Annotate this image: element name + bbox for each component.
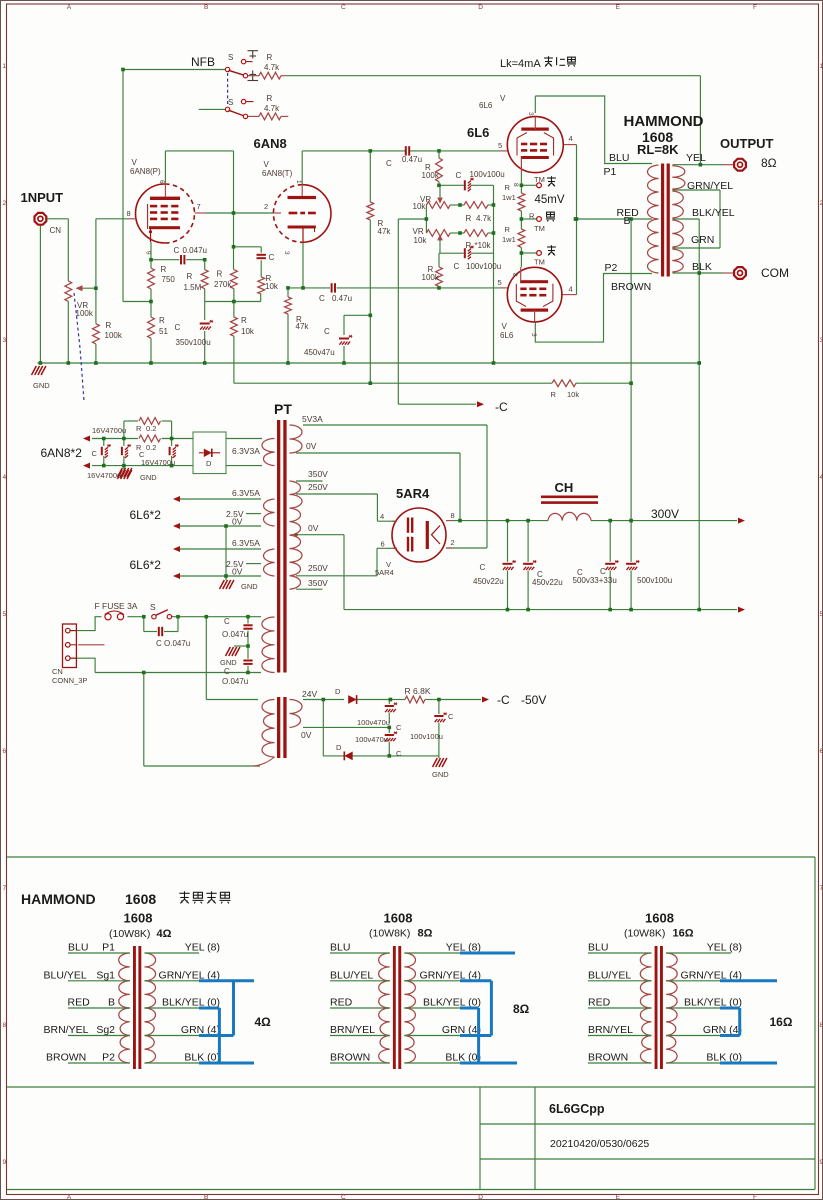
svg-text:S: S <box>228 98 233 107</box>
svg-text:300V: 300V <box>651 507 679 521</box>
svg-text:100v100u: 100v100u <box>470 170 505 179</box>
svg-text:RED: RED <box>330 997 353 1009</box>
svg-text:S: S <box>228 53 233 62</box>
svg-text:C: C <box>341 4 346 11</box>
svg-text:R: R <box>136 424 142 433</box>
svg-text:10k: 10k <box>265 282 279 291</box>
svg-text:R: R <box>466 241 472 250</box>
svg-text:BROWN: BROWN <box>330 1052 370 1064</box>
svg-text:C: C <box>324 327 330 336</box>
svg-text:R: R <box>466 214 472 223</box>
svg-text:RED: RED <box>588 997 611 1009</box>
svg-text:F: F <box>753 1194 757 1200</box>
svg-text:1608: 1608 <box>645 911 674 926</box>
svg-text:8: 8 <box>512 183 519 187</box>
svg-text:TM: TM <box>534 224 545 233</box>
svg-text:O.047u: O.047u <box>222 677 248 686</box>
svg-text:5: 5 <box>3 611 7 618</box>
svg-text:6: 6 <box>381 540 385 549</box>
svg-text:100v100u: 100v100u <box>466 262 501 271</box>
svg-text:7: 7 <box>3 885 7 892</box>
svg-text:100v470u: 100v470u <box>357 718 390 727</box>
svg-text:4: 4 <box>3 474 7 481</box>
svg-text:2: 2 <box>820 200 823 207</box>
svg-text:S: S <box>150 602 156 612</box>
svg-text:3: 3 <box>527 112 534 116</box>
svg-text:5: 5 <box>498 141 502 150</box>
svg-text:OUTPUT: OUTPUT <box>720 136 774 151</box>
svg-text:BLU: BLU <box>609 152 629 164</box>
svg-text:HAMMOND: HAMMOND <box>21 891 96 907</box>
svg-text:4: 4 <box>569 285 573 294</box>
svg-text:6: 6 <box>3 748 7 755</box>
svg-text:0V: 0V <box>232 517 243 527</box>
svg-text:1: 1 <box>3 63 7 70</box>
svg-text:VR: VR <box>413 227 424 236</box>
svg-text:51: 51 <box>159 327 168 336</box>
svg-text:6L6: 6L6 <box>479 101 493 110</box>
svg-text:YEL (8): YEL (8) <box>185 942 220 954</box>
svg-text:C: C <box>480 563 486 572</box>
svg-text:CN: CN <box>50 226 62 235</box>
svg-text:20210420/0530/0625: 20210420/0530/0625 <box>550 1138 649 1150</box>
svg-text:C: C <box>269 253 275 262</box>
svg-text:YEL (8): YEL (8) <box>707 942 742 954</box>
svg-text:R: R <box>505 225 511 234</box>
svg-text:V: V <box>502 322 508 331</box>
svg-text:0.47u: 0.47u <box>402 155 422 164</box>
svg-text:100v470u: 100v470u <box>355 735 388 744</box>
svg-text:R: R <box>529 212 535 221</box>
svg-text:1NPUT: 1NPUT <box>21 190 64 205</box>
svg-text:A: A <box>67 1194 72 1200</box>
svg-text:1: 1 <box>295 180 302 184</box>
svg-text:CN: CN <box>52 667 63 676</box>
svg-text:-50V: -50V <box>521 693 546 707</box>
svg-text:100k: 100k <box>76 309 94 318</box>
svg-text:1w1: 1w1 <box>502 193 516 202</box>
svg-text:YEL: YEL <box>686 152 706 164</box>
svg-text:270k: 270k <box>214 280 232 289</box>
svg-text:16Ω: 16Ω <box>673 928 694 940</box>
svg-text:4: 4 <box>820 474 823 481</box>
svg-text:47k: 47k <box>296 322 310 331</box>
svg-text:6L6: 6L6 <box>467 125 489 140</box>
svg-text:(10W8K): (10W8K) <box>369 928 410 940</box>
svg-text:R: R <box>551 390 557 399</box>
svg-text:6L6GCpp: 6L6GCpp <box>549 1102 605 1116</box>
svg-text:4.7k: 4.7k <box>476 214 492 223</box>
svg-text:(10W8K): (10W8K) <box>624 928 665 940</box>
svg-text:100k: 100k <box>105 331 123 340</box>
svg-text:TM: TM <box>534 258 545 267</box>
svg-text:0V: 0V <box>232 567 243 577</box>
svg-text:R: R <box>161 265 167 274</box>
svg-text:24V: 24V <box>302 689 317 699</box>
svg-text:BLU/YEL: BLU/YEL <box>44 969 87 981</box>
svg-text:1608: 1608 <box>124 911 153 926</box>
svg-text:5AR4: 5AR4 <box>396 486 430 501</box>
svg-text:0V: 0V <box>301 730 312 740</box>
svg-text:6: 6 <box>158 180 165 184</box>
svg-text:P2: P2 <box>102 1052 115 1064</box>
svg-text:BLU: BLU <box>330 942 350 954</box>
svg-text:6L6*2: 6L6*2 <box>130 508 162 522</box>
svg-text:B: B <box>204 1194 208 1200</box>
svg-text:R: R <box>106 321 112 330</box>
svg-text:BLK/YEL: BLK/YEL <box>692 207 735 219</box>
svg-text:B: B <box>108 997 115 1009</box>
svg-text:P1: P1 <box>102 942 115 954</box>
svg-text:6AN8: 6AN8 <box>254 136 287 151</box>
svg-text:500v100u: 500v100u <box>637 576 672 585</box>
svg-text:1.5M: 1.5M <box>184 283 202 292</box>
svg-text:6AN8(P): 6AN8(P) <box>130 167 161 176</box>
svg-text:Sg2: Sg2 <box>96 1024 115 1036</box>
svg-text:R: R <box>241 316 247 325</box>
svg-text:4: 4 <box>569 134 573 143</box>
svg-text:1608: 1608 <box>125 891 156 907</box>
svg-text:(10W8K): (10W8K) <box>109 928 150 940</box>
svg-text:4: 4 <box>380 512 384 521</box>
svg-text:BROWN: BROWN <box>46 1052 86 1064</box>
svg-text:3: 3 <box>820 337 823 344</box>
svg-text:0.2: 0.2 <box>146 424 156 433</box>
svg-text:P2: P2 <box>605 262 618 274</box>
svg-text:C: C <box>600 567 606 576</box>
svg-text:A: A <box>67 4 72 11</box>
svg-text:3: 3 <box>283 251 290 255</box>
svg-text:GND: GND <box>140 473 157 482</box>
svg-text:750: 750 <box>162 275 176 284</box>
svg-text:BROWN: BROWN <box>588 1052 628 1064</box>
svg-text:C: C <box>456 171 462 180</box>
svg-text:1608: 1608 <box>384 911 413 926</box>
svg-text:6L6: 6L6 <box>500 331 514 340</box>
svg-text:6.3V3A: 6.3V3A <box>232 446 260 456</box>
svg-text:1w1: 1w1 <box>502 235 516 244</box>
svg-text:6L6*2: 6L6*2 <box>130 558 162 572</box>
svg-text:7: 7 <box>197 202 201 211</box>
svg-text:BRN/YEL: BRN/YEL <box>588 1024 633 1036</box>
svg-text:D: D <box>335 687 341 696</box>
svg-text:5AR4: 5AR4 <box>375 568 394 577</box>
svg-text:250V: 250V <box>308 482 328 492</box>
svg-text:8: 8 <box>451 511 455 520</box>
svg-text:GND: GND <box>33 381 50 390</box>
svg-text:10k: 10k <box>567 390 579 399</box>
svg-text:8Ω: 8Ω <box>761 156 777 170</box>
svg-text:4Ω: 4Ω <box>255 1015 272 1029</box>
svg-text:R: R <box>187 272 193 281</box>
svg-text:10k: 10k <box>241 327 255 336</box>
svg-text:450v22u: 450v22u <box>532 578 563 587</box>
svg-text:350v100u: 350v100u <box>176 338 211 347</box>
svg-text:-C: -C <box>497 693 510 707</box>
svg-text:C: C <box>175 323 181 332</box>
svg-text:6AN8(T): 6AN8(T) <box>262 169 293 178</box>
svg-text:GND: GND <box>432 770 449 779</box>
svg-text:B: B <box>624 215 631 227</box>
svg-text:C: C <box>396 749 402 758</box>
svg-text:500v33+33u: 500v33+33u <box>573 576 617 585</box>
svg-text:GND: GND <box>241 582 258 591</box>
svg-text:C: C <box>386 159 392 168</box>
svg-text:-C: -C <box>495 400 508 414</box>
svg-text:0.047u: 0.047u <box>183 246 207 255</box>
svg-text:F FUSE 3A: F FUSE 3A <box>95 601 138 611</box>
svg-text:RL=8K: RL=8K <box>637 142 679 157</box>
svg-text:9: 9 <box>145 251 152 255</box>
svg-text:8: 8 <box>127 209 131 218</box>
svg-text:16Ω: 16Ω <box>770 1015 793 1029</box>
svg-text:45mV: 45mV <box>535 194 565 206</box>
svg-text:0.47u: 0.47u <box>332 294 352 303</box>
svg-text:0.2: 0.2 <box>146 443 156 452</box>
svg-text:D: D <box>478 1194 483 1200</box>
svg-text:BLU: BLU <box>68 942 88 954</box>
svg-text:C: C <box>448 712 454 721</box>
svg-text:Sg1: Sg1 <box>96 969 115 981</box>
svg-text:BROWN: BROWN <box>611 281 651 293</box>
svg-text:10k: 10k <box>414 236 428 245</box>
svg-text:2: 2 <box>3 200 7 207</box>
svg-text:HAMMOND: HAMMOND <box>624 113 704 130</box>
svg-text:V: V <box>132 158 138 167</box>
svg-text:16V4700u: 16V4700u <box>92 426 126 435</box>
svg-text:GRN: GRN <box>691 234 714 246</box>
svg-text:D: D <box>336 743 342 752</box>
svg-text:D: D <box>206 459 212 468</box>
svg-text:B: B <box>204 4 208 11</box>
svg-text:C: C <box>174 246 180 255</box>
svg-text:R: R <box>267 94 273 103</box>
svg-text:0V: 0V <box>306 441 317 451</box>
svg-text:3: 3 <box>3 337 7 344</box>
svg-text:C: C <box>224 667 230 676</box>
svg-text:BLU: BLU <box>588 942 608 954</box>
svg-text:4Ω: 4Ω <box>157 928 172 940</box>
svg-text:16V4700u: 16V4700u <box>141 458 175 467</box>
svg-text:C: C <box>139 450 145 459</box>
svg-text:5: 5 <box>498 278 502 287</box>
svg-text:C: C <box>454 262 460 271</box>
svg-text:9: 9 <box>3 1159 7 1166</box>
svg-text:7: 7 <box>820 885 823 892</box>
svg-text:350V: 350V <box>308 578 328 588</box>
svg-text:10k: 10k <box>413 202 427 211</box>
svg-text:P1: P1 <box>604 166 617 178</box>
svg-text:C: C <box>319 294 325 303</box>
svg-text:E: E <box>616 1194 621 1200</box>
svg-text:R: R <box>217 270 223 279</box>
svg-text:5: 5 <box>820 611 823 618</box>
svg-text:C: C <box>396 723 402 732</box>
svg-text:E: E <box>616 4 621 11</box>
svg-text:C: C <box>92 449 98 458</box>
svg-text:R 6.8K: R 6.8K <box>405 686 431 696</box>
svg-text:F: F <box>753 4 757 11</box>
svg-text:CH: CH <box>555 480 574 495</box>
svg-text:R: R <box>267 53 273 62</box>
svg-text:4.7k: 4.7k <box>264 63 280 72</box>
svg-text:*10k: *10k <box>475 241 492 250</box>
svg-text:R: R <box>159 316 165 325</box>
svg-text:COM: COM <box>761 266 789 280</box>
svg-text:16V4700u: 16V4700u <box>87 471 121 480</box>
svg-text:8: 8 <box>511 273 518 277</box>
svg-text:100v100u: 100v100u <box>410 732 443 741</box>
svg-text:BLU/YEL: BLU/YEL <box>330 969 373 981</box>
svg-text:47k: 47k <box>378 227 392 236</box>
svg-text:450v47u: 450v47u <box>304 348 335 357</box>
svg-text:0V: 0V <box>308 523 319 533</box>
svg-text:6AN8*2: 6AN8*2 <box>41 446 83 460</box>
svg-text:2: 2 <box>264 202 268 211</box>
svg-text:450v22u: 450v22u <box>473 577 504 586</box>
svg-text:100k: 100k <box>422 171 440 180</box>
svg-text:TM: TM <box>534 175 545 184</box>
svg-text:RED: RED <box>68 997 91 1009</box>
svg-text:V: V <box>264 160 270 169</box>
svg-text:C O.047u: C O.047u <box>156 639 190 648</box>
svg-text:NFB: NFB <box>191 55 215 69</box>
svg-text:8Ω: 8Ω <box>418 928 433 940</box>
svg-text:8Ω: 8Ω <box>513 1002 530 1016</box>
svg-text:6.3V5A: 6.3V5A <box>232 538 260 548</box>
svg-text:6.3V5A: 6.3V5A <box>232 488 260 498</box>
svg-text:GRN/YEL: GRN/YEL <box>687 180 733 192</box>
svg-text:O.047u: O.047u <box>222 630 248 639</box>
svg-text:V: V <box>500 94 506 103</box>
svg-text:PT: PT <box>274 401 292 417</box>
svg-text:250V: 250V <box>308 563 328 573</box>
svg-text:BLU/YEL: BLU/YEL <box>588 969 631 981</box>
svg-text:BRN/YEL: BRN/YEL <box>44 1024 89 1036</box>
svg-text:C: C <box>224 617 230 626</box>
svg-text:C: C <box>341 1194 346 1200</box>
svg-text:1: 1 <box>820 63 823 70</box>
svg-text:4.7k: 4.7k <box>264 104 280 113</box>
svg-text:8: 8 <box>820 1022 823 1029</box>
svg-text:3: 3 <box>530 333 537 337</box>
svg-text:6: 6 <box>820 748 823 755</box>
svg-text:350V: 350V <box>308 469 328 479</box>
svg-text:5V3A: 5V3A <box>302 414 323 424</box>
svg-text:8: 8 <box>3 1022 7 1029</box>
svg-text:CONN_3P: CONN_3P <box>52 676 87 685</box>
svg-text:9: 9 <box>820 1159 823 1166</box>
svg-text:BRN/YEL: BRN/YEL <box>330 1024 375 1036</box>
svg-text:100k: 100k <box>422 273 440 282</box>
svg-text:Lk=4mA: Lk=4mA <box>500 58 541 70</box>
svg-text:R: R <box>505 183 511 192</box>
svg-text:GND: GND <box>220 658 237 667</box>
svg-text:D: D <box>478 4 483 11</box>
svg-text:BLK: BLK <box>692 261 712 273</box>
svg-text:2: 2 <box>451 538 455 547</box>
